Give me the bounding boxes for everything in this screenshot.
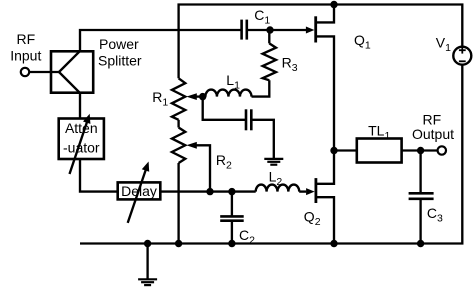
svg-text:Delay: Delay: [121, 183, 157, 199]
svg-text:RF: RF: [16, 31, 35, 47]
svg-text:Input: Input: [10, 47, 41, 63]
svg-text:Power: Power: [99, 36, 139, 52]
svg-text:-uator: -uator: [63, 140, 100, 156]
svg-text:Atten: Atten: [65, 120, 98, 136]
svg-text:Output: Output: [412, 126, 454, 142]
svg-text:Splitter: Splitter: [98, 53, 142, 69]
